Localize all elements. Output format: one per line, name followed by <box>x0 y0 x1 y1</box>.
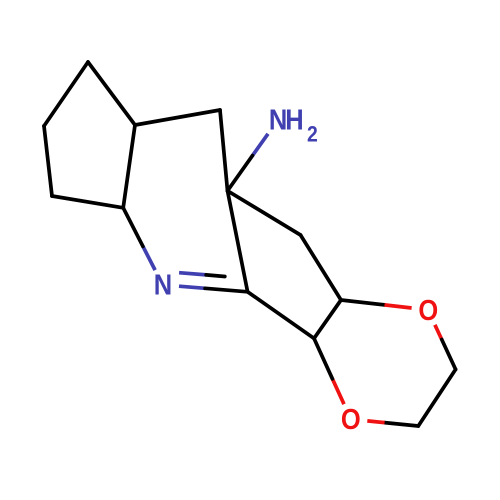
bond N1-P6 <box>143 246 155 270</box>
bond P5-X1 <box>88 62 135 125</box>
svg-text:H: H <box>285 103 303 136</box>
bond C4-P4 <box>220 110 228 191</box>
bond X2-X3 <box>44 126 52 196</box>
bond C4-V3 <box>228 191 301 235</box>
bond Ca-Cb <box>314 300 341 338</box>
svg-text:O: O <box>418 293 438 326</box>
bond Cc-Cd <box>418 369 455 426</box>
svg-text:N: N <box>154 268 172 301</box>
bond V3-Ca <box>301 235 342 300</box>
svg-text:O: O <box>341 403 361 436</box>
bond O2-Cb <box>332 379 344 404</box>
bond P4-P5 <box>135 110 220 125</box>
bond F1-C4 <box>228 191 248 292</box>
svg-text:2: 2 <box>307 122 318 146</box>
bond O1-Cc <box>435 325 442 340</box>
bond NH2-C4 <box>253 134 269 156</box>
bond Cd-O2 <box>385 423 419 426</box>
bond X1-X2 <box>44 62 88 126</box>
bond N1-F1 <box>179 286 205 288</box>
bond X3-P6 <box>52 196 123 208</box>
bond Ca-O1 <box>341 300 385 305</box>
bond F1-Cb <box>248 292 314 339</box>
bond P5-P6 <box>123 125 135 208</box>
